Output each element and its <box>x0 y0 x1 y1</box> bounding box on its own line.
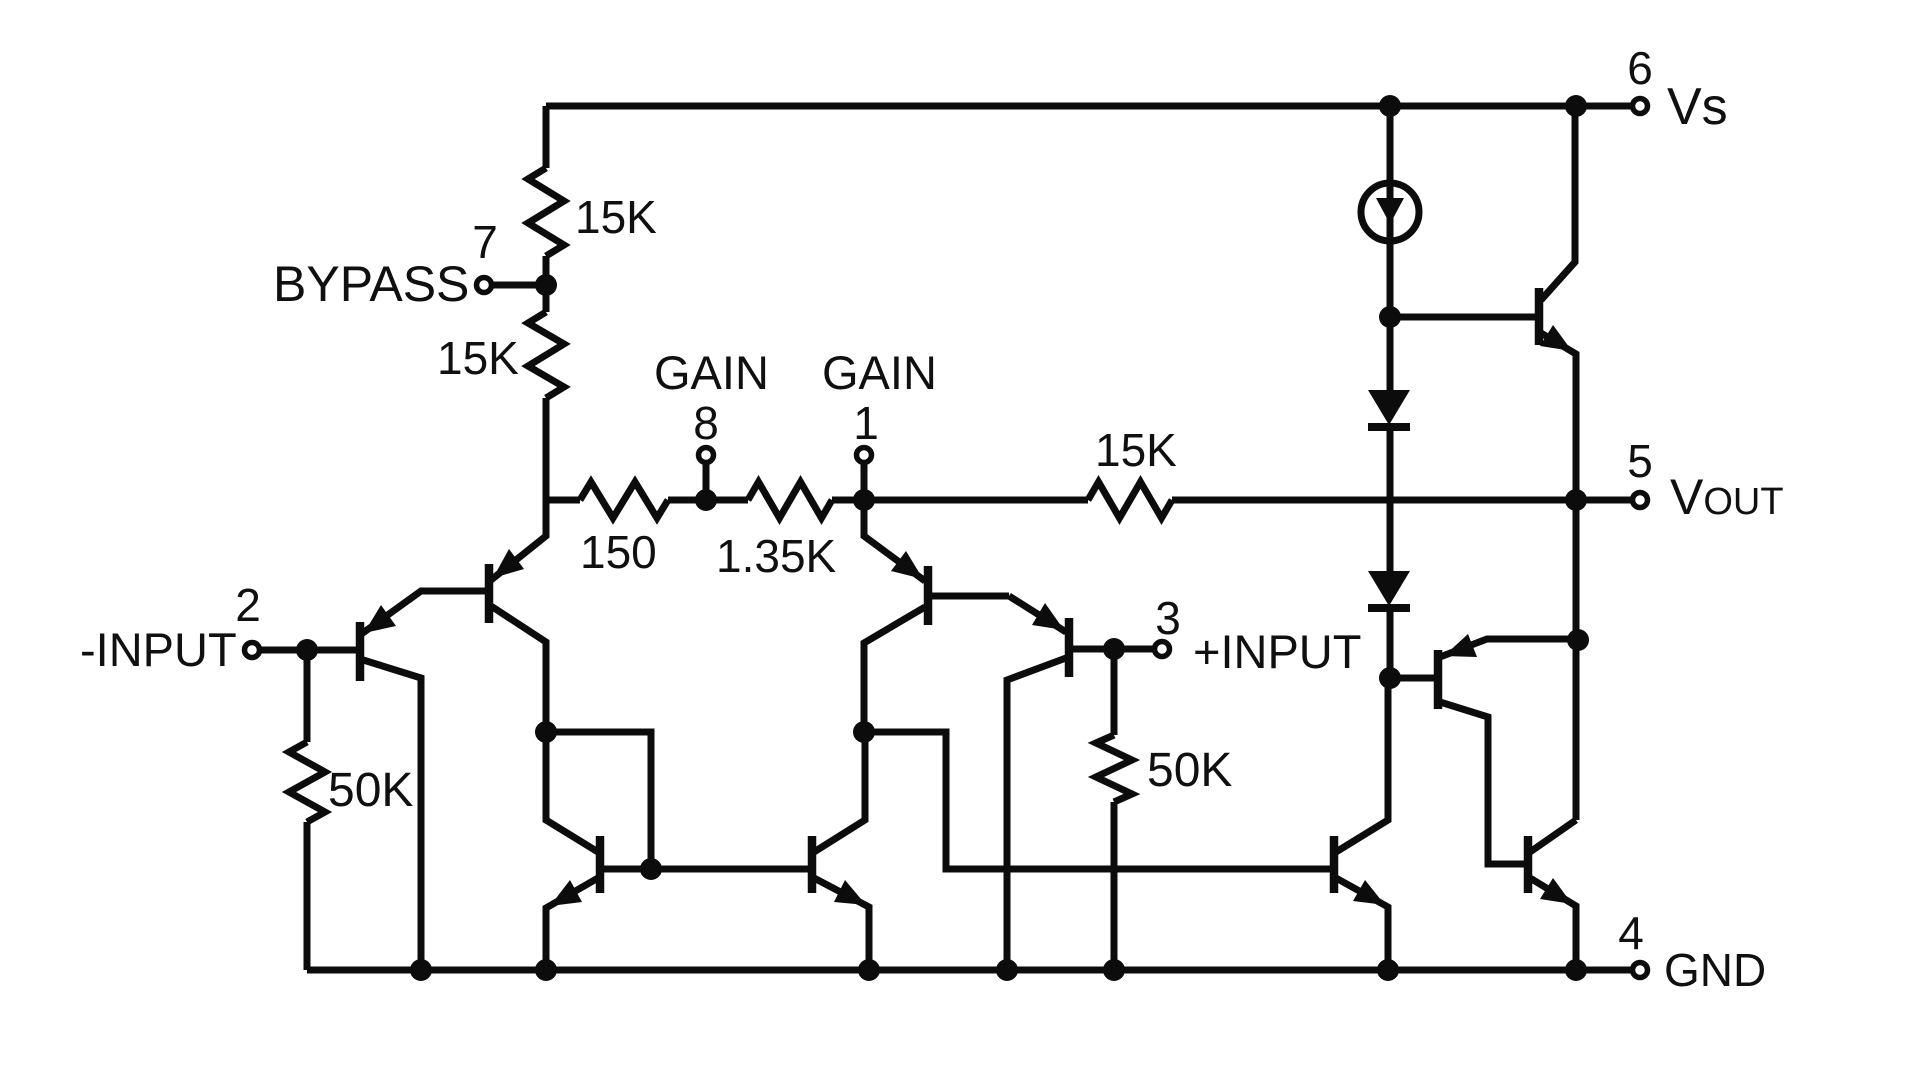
diode D2 <box>1368 571 1410 606</box>
transistor Q5 emitter arrow <box>550 880 582 906</box>
svg-text:15K: 15K <box>1095 424 1177 476</box>
resistor R4 1.35K <box>748 482 832 518</box>
svg-text:+INPUT: +INPUT <box>1193 625 1361 678</box>
wire: node down to Q5 collector <box>546 732 598 852</box>
wire: BYPASS stub <box>492 282 546 289</box>
transistor Q1 base bar <box>356 622 365 681</box>
wire: +INPUT node down to 50K-right <box>1111 649 1118 735</box>
node: Q2 collector junction <box>535 721 557 743</box>
transistor Q1 emitter (to Q2 base) <box>360 591 485 635</box>
node: Q8 emitter junction <box>1567 629 1589 651</box>
terminal pin3 +INPUT <box>1155 642 1170 657</box>
svg-text:BYPASS: BYPASS <box>273 256 469 312</box>
wire: mirror base Q5-Q6 <box>604 866 808 873</box>
transistor Q9 emitter arrow <box>1540 878 1572 904</box>
transistor Q9 emitter <box>1530 878 1576 970</box>
wire: D2 to Q8 base node <box>1387 608 1394 678</box>
transistor Q8 collector <box>1440 702 1524 864</box>
node: GAIN8 junction <box>695 489 717 511</box>
wire: Q3 base to Q4 emitter <box>932 593 1009 600</box>
transistor Q4 emitter arrow <box>1032 603 1064 630</box>
node: BYPASS junction <box>535 274 557 296</box>
transistor Q9 base bar <box>1524 836 1533 893</box>
wire: row y=500 left segment <box>546 497 580 504</box>
node: GND rail Q5 emitter <box>535 959 557 981</box>
wire: Q7 base node down to D1 <box>1387 316 1394 391</box>
transistor Q8 emitter <box>1440 639 1570 657</box>
node: -INPUT junction <box>296 639 318 661</box>
wire: GAIN1 terminal stub <box>861 464 868 500</box>
resistor R3 150 <box>580 482 668 518</box>
terminal pin1 GAIN <box>857 448 872 463</box>
transistor Q10 collector <box>1336 678 1388 852</box>
wire: 50K-right bottom lead <box>1111 802 1118 970</box>
transistor Q4 base bar <box>1065 618 1074 677</box>
resistor R6 50K (left) <box>289 742 325 822</box>
wire: -INPUT lead <box>261 647 356 654</box>
svg-text:Vs: Vs <box>1667 78 1728 136</box>
svg-text:15K: 15K <box>437 332 519 384</box>
terminal pin7 BYPASS <box>477 278 492 293</box>
wire: 50K-left top lead <box>304 650 311 742</box>
wire: between R1 and R2 (BYPASS node) <box>543 256 550 312</box>
node: Q3 collector junction <box>853 721 875 743</box>
wire: 150 to 1.35K with GAIN8 node <box>668 497 748 504</box>
transistor Q3 emitter arrow <box>891 551 923 579</box>
node: +INPUT junction <box>1103 638 1125 660</box>
svg-text:1.35K: 1.35K <box>716 530 837 582</box>
node: GND rail 50K-right <box>1103 959 1125 981</box>
wire: 1.35K to 15K-out <box>832 497 1088 504</box>
resistor R7 50K (right) <box>1096 735 1132 802</box>
wire: Q2 collector node to mirror base <box>546 732 651 869</box>
node: GND rail Q1 collector <box>410 959 432 981</box>
terminal pin5 VOUT <box>1633 493 1648 508</box>
transistor Q4 emitter <box>1009 596 1066 632</box>
transistor Q3 emitter <box>864 500 925 581</box>
svg-text:150: 150 <box>580 526 657 578</box>
svg-text:6: 6 <box>1627 42 1653 94</box>
terminal pin8 GAIN <box>699 448 714 463</box>
transistor Q10 base bar <box>1330 836 1339 893</box>
node: GND rail Q6 emitter <box>858 959 880 981</box>
transistor Q10 emitter <box>1336 878 1388 970</box>
transistor Q8 emitter arrow <box>1444 634 1477 657</box>
node: GND rail Q9 emitter <box>1565 959 1587 981</box>
wire: Q4 base to +INPUT pin3 <box>1073 646 1153 653</box>
wire: GAIN8 terminal stub <box>703 464 710 500</box>
svg-text:7: 7 <box>472 216 498 268</box>
transistor Q8 base bar <box>1434 650 1443 709</box>
transistor Q7 emitter <box>1541 333 1576 500</box>
transistor Q6 emitter <box>814 878 869 970</box>
svg-text:4: 4 <box>1618 907 1644 959</box>
terminal pin6 Vs <box>1633 99 1648 114</box>
diode D1 <box>1368 390 1410 425</box>
terminal pin4 GND <box>1633 963 1648 978</box>
svg-text:GAIN: GAIN <box>654 346 769 399</box>
node: VOUT junction <box>1565 489 1587 511</box>
wire: R2 down to gain-resistor row <box>543 398 550 500</box>
wire: bias column from Vs rail through current source and diodes <box>1387 106 1394 316</box>
transistor Q2 base bar <box>485 564 494 623</box>
transistor Q6 collector <box>814 732 865 852</box>
current source I1 arrow <box>1376 198 1404 224</box>
wire: 15K to VOUT pin5 <box>1172 497 1631 504</box>
wire: D1 to D2 (crosses VOUT line) <box>1387 427 1394 572</box>
transistor Q5 base bar <box>596 836 605 893</box>
transistor Q6 base bar <box>808 836 817 893</box>
svg-text:GND: GND <box>1664 944 1766 996</box>
transistor Q1 emitter arrow <box>364 605 396 633</box>
transistor Q3 base bar <box>924 566 933 625</box>
svg-text:3: 3 <box>1155 592 1181 644</box>
transistor Q1 collector <box>360 659 421 970</box>
wire: VOUT column pin5 to Q8 emitter node and Q9 collector <box>1573 500 1580 820</box>
transistor Q3 collector <box>864 607 925 732</box>
current source I1 circle <box>1361 183 1419 241</box>
terminal pin2 -INPUT <box>245 643 260 658</box>
transistor Q7 emitter arrow <box>1540 325 1572 351</box>
wire: 50K-left bottom lead into ground rail corner <box>304 822 311 970</box>
node: Vs rail bias tap <box>1379 95 1401 117</box>
transistor Q6 emitter arrow <box>834 880 866 905</box>
svg-text:8: 8 <box>693 397 719 449</box>
wire: bottom GND rail <box>307 967 1631 974</box>
node: Vs rail Q7 collector tap <box>1565 95 1587 117</box>
transistor Q7 base bar <box>1535 288 1544 345</box>
transistor Q9 collector <box>1530 820 1576 852</box>
svg-text:VOUT: VOUT <box>1670 469 1784 525</box>
svg-text:GAIN: GAIN <box>822 346 937 399</box>
transistor Q2 emitter <box>491 500 546 580</box>
wire: Q3/Q6 collector node to driver base <box>864 732 1330 869</box>
transistor Q8 base wire <box>1390 675 1434 682</box>
transistor Q5 emitter <box>546 878 598 970</box>
node: GND rail Q10 emitter <box>1377 959 1399 981</box>
transistor Q7 collector <box>1541 106 1575 300</box>
resistor R2 15K (lower) <box>528 312 564 398</box>
node: GAIN1 junction <box>853 489 875 511</box>
svg-text:-INPUT: -INPUT <box>80 623 237 676</box>
node: Q8 base junction <box>1379 667 1401 689</box>
svg-text:15K: 15K <box>575 191 657 243</box>
wire: left column upper lead <box>543 106 550 168</box>
resistor R1 15K (top) <box>528 168 564 256</box>
resistor R5 15K (to VOUT) <box>1088 482 1172 518</box>
node: GND rail Q4 collector <box>996 959 1018 981</box>
svg-text:2: 2 <box>235 579 261 631</box>
svg-text:50K: 50K <box>328 764 413 817</box>
wire: top Vs rail <box>546 103 1631 110</box>
node: mirror base junction <box>640 858 662 880</box>
transistor Q4 collector <box>1007 658 1066 970</box>
transistor Q10 emitter arrow <box>1353 880 1385 905</box>
svg-text:5: 5 <box>1627 435 1653 487</box>
svg-text:50K: 50K <box>1147 744 1232 797</box>
node: Q7 base junction <box>1379 306 1401 328</box>
wire: Q7 base wire <box>1390 314 1535 321</box>
transistor Q2 emitter arrow <box>493 549 524 578</box>
svg-text:1: 1 <box>853 397 879 449</box>
transistor Q2 collector <box>491 606 546 732</box>
